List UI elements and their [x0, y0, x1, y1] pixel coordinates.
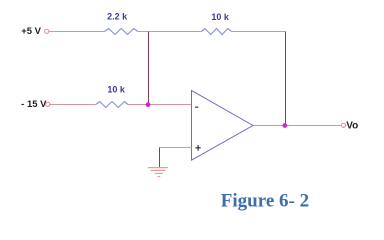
terminal Vo — [341, 123, 345, 127]
wire +5V terminal to R1 — [49, 31, 105, 33]
svg-text:- 15 V: - 15 V — [21, 99, 47, 110]
terminal -15V — [46, 102, 50, 106]
wire ground vertical — [159, 148, 161, 168]
svg-text:+5 V: +5 V — [21, 26, 41, 37]
svg-text:2.2 k: 2.2 k — [107, 12, 128, 22]
wire R2 to top-right corner — [232, 31, 286, 33]
wire vertical right (feedback down to output node) — [285, 32, 287, 126]
resistor R3 10k — [96, 102, 128, 108]
wire vertical node A branch (R1 output down to inverting node) — [148, 32, 150, 105]
svg-text:10 k: 10 k — [107, 85, 126, 95]
op-amp U1 — [192, 91, 254, 161]
wire ground horizontal to non-inverting input — [160, 147, 192, 149]
resistor R2 10k (feedback) — [201, 29, 231, 35]
terminal +5V — [45, 29, 49, 33]
svg-text:Vo: Vo — [346, 121, 358, 132]
wire op-amp output to Vo terminal — [253, 125, 341, 127]
op-amp inverting input marker - — [195, 106, 198, 108]
resistor R1 2.2k — [105, 29, 138, 35]
wire -15V terminal to R3 — [50, 104, 96, 106]
junction output node — [282, 123, 287, 128]
ground — [148, 168, 168, 177]
svg-text:10 k: 10 k — [211, 12, 230, 22]
wire R3 to op-amp inverting input — [128, 104, 192, 106]
junction node A (inverting input node) — [146, 102, 151, 107]
svg-text:Figure 6- 2: Figure 6- 2 — [221, 191, 309, 212]
op-amp non-inverting input marker + — [195, 145, 200, 151]
wire R1 to R2 (through node A branch) — [138, 31, 202, 33]
